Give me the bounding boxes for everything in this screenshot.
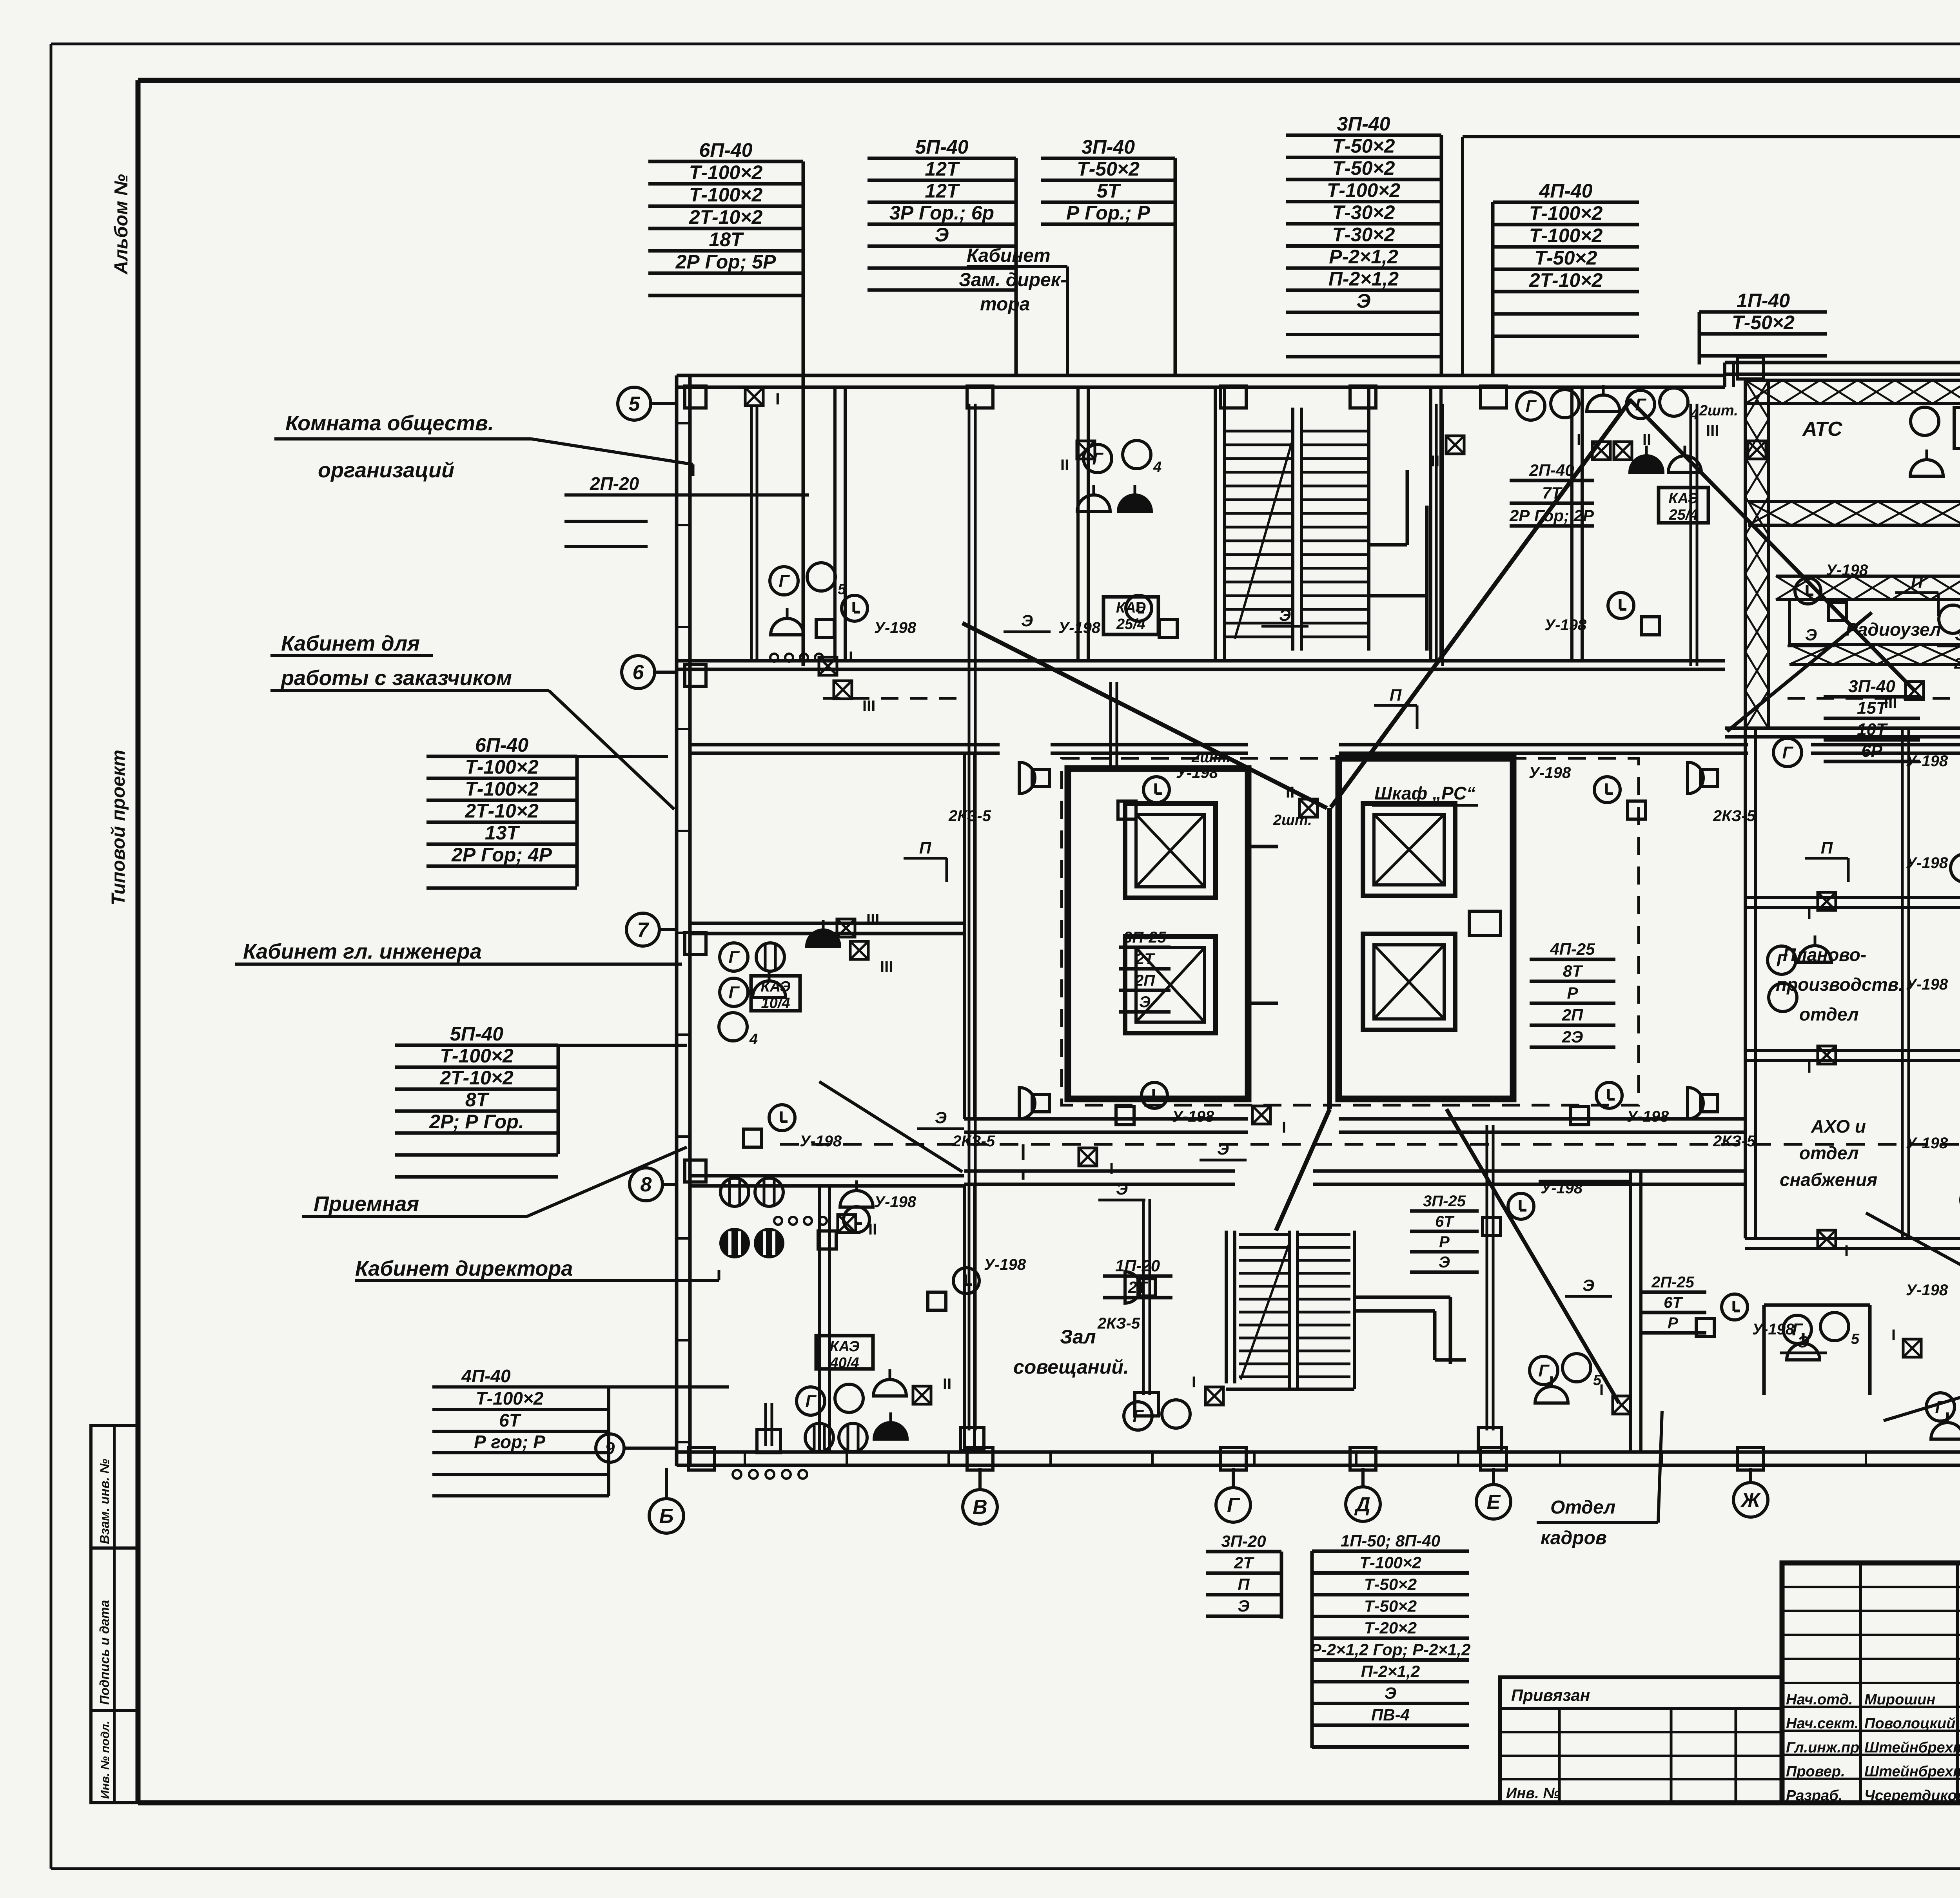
svg-text:Э: Э	[1955, 625, 1960, 644]
label Комната обществ. организаций	[274, 412, 693, 482]
svg-text:Т-30×2: Т-30×2	[1332, 201, 1395, 223]
cross-connect box КАЭ 40/4	[816, 1336, 873, 1371]
svg-text:У-198: У-198	[1176, 764, 1218, 781]
outlet cluster Отдел кадров	[1530, 1354, 1602, 1403]
label Э drop	[1098, 1180, 1145, 1200]
wall bottom main	[677, 1452, 1960, 1465]
svg-text:Т-100×2: Т-100×2	[689, 184, 763, 206]
svg-text:Ж: Ж	[1740, 1489, 1761, 1512]
junction box III	[1884, 682, 1924, 711]
wall partition x2130 upper	[835, 387, 845, 662]
svg-text:У-198: У-198	[1172, 1108, 1214, 1125]
outlet cluster гл. инженер	[719, 920, 840, 1048]
svg-text:13Т: 13Т	[485, 822, 521, 844]
duct band АТС top	[1745, 380, 1960, 404]
svg-text:II: II	[1060, 457, 1069, 474]
junction box I	[1599, 1381, 1631, 1414]
svg-text:9: 9	[605, 1439, 615, 1458]
wall axis-8 left rooms	[690, 1176, 964, 1186]
svg-text:Т-100×2: Т-100×2	[1359, 1554, 1421, 1572]
clock point У-198	[1906, 854, 1960, 911]
riser connector line to table 1П-50; 14П-40	[1463, 137, 1960, 375]
svg-text:Типовой проект: Типовой проект	[108, 750, 129, 905]
svg-text:1П-20: 1П-20	[1115, 1256, 1160, 1275]
junction box II	[1286, 784, 1318, 817]
svg-text:12Т: 12Т	[925, 158, 960, 180]
svg-text:7: 7	[637, 919, 650, 941]
svg-text:Р: Р	[1567, 984, 1578, 1002]
junction box III	[837, 911, 879, 937]
svg-text:КАЭ: КАЭ	[1116, 600, 1146, 616]
label Э drop	[1200, 1140, 1247, 1160]
svg-text:У-198: У-198	[1906, 1135, 1948, 1152]
riser table 4П-25 (8Т)	[1530, 940, 1615, 1047]
riser table 6П-40 top-left	[648, 139, 803, 666]
label Планово-производств. отдел	[1776, 944, 1904, 1024]
svg-text:Г: Г	[1525, 397, 1537, 416]
clock point У-198	[1906, 752, 1960, 809]
axis bubble 6	[622, 656, 677, 689]
svg-text:П: П	[1911, 573, 1923, 591]
svg-text:Шкаф „РС“: Шкаф „РС“	[1374, 783, 1475, 803]
svg-text:П: П	[1238, 1575, 1250, 1593]
svg-text:I: I	[1192, 1374, 1196, 1391]
svg-text:Привязан: Привязан	[1511, 1686, 1590, 1704]
svg-text:Э: Э	[1217, 1140, 1229, 1158]
svg-text:5: 5	[1593, 1372, 1602, 1389]
svg-text:Зам. дирек-: Зам. дирек-	[959, 270, 1067, 290]
svg-text:работы с заказчиком: работы с заказчиком	[280, 666, 512, 690]
dashed zone Шкаф РС	[1062, 758, 1639, 1105]
pilasters on bottom wall	[689, 1447, 1960, 1470]
svg-text:3П-20: 3П-20	[1221, 1532, 1266, 1550]
svg-text:Альбом №: Альбом №	[111, 174, 132, 275]
outlet cluster Бухгалтерия east	[1926, 1390, 1960, 1439]
svg-text:Р Гор.; Р: Р Гор.; Р	[1066, 202, 1151, 224]
clock point У-198	[1906, 1282, 1960, 1338]
svg-text:4: 4	[1690, 406, 1699, 423]
svg-text:Т-50×2: Т-50×2	[1077, 158, 1140, 180]
call point 2КЗ-5	[952, 1088, 1049, 1150]
svg-text:I: I	[1891, 1327, 1896, 1344]
svg-text:АХО и: АХО и	[1811, 1116, 1866, 1137]
svg-text:АТС: АТС	[1802, 418, 1843, 441]
stamp box Подпись и дата	[91, 1548, 138, 1711]
svg-text:Штейнбрехт: Штейнбрехт	[1864, 1764, 1960, 1780]
wall partition x3650 stair east	[1431, 387, 1441, 662]
wall divider right rooms y2680	[1745, 1050, 1960, 1060]
junction box III	[1706, 422, 1766, 459]
wall corridor-1 bottom east	[1339, 745, 1748, 753]
svg-text:Г: Г	[1227, 1494, 1240, 1517]
margin text Альбом	[111, 174, 132, 275]
riser table 1П-20	[1103, 1256, 1172, 1298]
svg-text:У-198: У-198	[1906, 976, 1948, 993]
wall corridor-1 top	[677, 661, 1725, 669]
svg-text:отдел: отдел	[1799, 1004, 1859, 1024]
junction box II	[913, 1376, 951, 1404]
svg-text:2Р; Р Гор.: 2Р; Р Гор.	[429, 1111, 524, 1133]
label 2шт centre	[1191, 749, 1230, 766]
junction box I	[1252, 1106, 1286, 1136]
axis bubble 8	[630, 1168, 677, 1201]
svg-text:У-198: У-198	[1752, 1321, 1795, 1338]
svg-text:Э: Э	[1439, 1254, 1450, 1271]
svg-text:Э: Э	[1238, 1597, 1249, 1615]
svg-text:У-198: У-198	[1541, 1180, 1583, 1197]
wall left main	[677, 375, 690, 1466]
wall partition x4010 upper	[1572, 387, 1582, 662]
svg-text:3П-40: 3П-40	[1848, 677, 1895, 696]
hatch circles junction axis8	[774, 1217, 827, 1225]
svg-text:Т-20×2: Т-20×2	[1364, 1619, 1417, 1637]
svg-text:Р гор; Р: Р гор; Р	[474, 1432, 545, 1452]
clock point У-198	[1118, 764, 1218, 819]
stairwell lower flights	[1226, 1231, 1466, 1389]
wall corridor-2 bottom west	[964, 1171, 1235, 1184]
svg-text:Т-100×2: Т-100×2	[689, 161, 763, 183]
label Кабинет директора	[355, 1257, 719, 1280]
svg-text:I: I	[1807, 905, 1811, 923]
wall step at Ж axis	[1725, 363, 1733, 387]
label Э drop	[1004, 611, 1051, 632]
axis bubble 7	[626, 913, 677, 946]
svg-text:Нач.сект.: Нач.сект.	[1786, 1715, 1858, 1732]
riser table 5П-40 top	[867, 136, 1016, 375]
label Бухгалтерия	[1866, 1213, 1960, 1421]
svg-text:2Р Гор; 4Р: 2Р Гор; 4Р	[451, 844, 552, 866]
svg-text:Т-30×2: Т-30×2	[1332, 224, 1395, 246]
svg-text:4П-40: 4П-40	[1539, 180, 1592, 202]
outlet cluster Зал совещаний	[1124, 1400, 1190, 1430]
svg-text:2шт.: 2шт.	[1191, 749, 1230, 766]
svg-text:Штейнбрехт: Штейнбрехт	[1864, 1739, 1960, 1756]
svg-text:У-198: У-198	[874, 619, 916, 636]
svg-text:Е: Е	[1487, 1491, 1501, 1514]
outlet cluster спецсвязь upper	[1773, 738, 1960, 889]
svg-text:III: III	[862, 698, 875, 715]
riser line x3800	[1478, 1125, 1502, 1451]
label П channel	[904, 839, 947, 882]
wall divider right rooms y3160	[1745, 1238, 1960, 1249]
wall corridor-1 bottom far east	[1811, 745, 1960, 753]
svg-text:I: I	[1109, 1160, 1114, 1177]
label Э drop	[1261, 606, 1308, 626]
svg-text:2Р Гор; 5Р: 2Р Гор; 5Р	[675, 251, 776, 273]
svg-text:Э: Э	[1797, 1332, 1809, 1351]
riser table 3П-40 top	[1041, 136, 1175, 374]
call point 2КЗ-5	[948, 762, 1049, 825]
call point 2КЗ-5	[1688, 762, 1756, 825]
svg-text:Г: Г	[728, 948, 740, 967]
svg-text:Р: Р	[1668, 1314, 1678, 1332]
clock point У-198	[1058, 595, 1177, 638]
cross-connect box КАЭ 25/4 west	[1103, 597, 1158, 634]
svg-text:2Т: 2Т	[1234, 1554, 1254, 1572]
svg-text:Т-50×2: Т-50×2	[1732, 312, 1795, 334]
svg-text:Мирошин: Мирошин	[1864, 1691, 1935, 1708]
riser stub Зал совещаний	[1135, 1199, 1158, 1416]
label Кабинет для работы с заказчиком	[270, 632, 674, 809]
junction box I	[1079, 1148, 1114, 1177]
wall partition x2460 lower	[964, 1184, 975, 1452]
title block frame	[1782, 1563, 1960, 1803]
cable diagonal Приемная	[819, 1082, 962, 1172]
cable diagonal top to centre	[1331, 400, 1631, 807]
svg-text:6Т: 6Т	[499, 1410, 522, 1430]
duct band radio bottom	[1789, 645, 1960, 664]
svg-text:2Т-10×2: 2Т-10×2	[689, 206, 763, 228]
svg-text:2Т-10×2: 2Т-10×2	[1529, 269, 1603, 291]
label П channel	[1895, 573, 1938, 616]
riser line x3671 lower	[1436, 404, 1443, 666]
svg-text:5: 5	[1851, 1331, 1860, 1347]
riser table 3П-25 (2Т 2П Э)	[1119, 929, 1171, 1012]
axis bubble Е	[1476, 1468, 1511, 1519]
wall partition x4160 lower	[1631, 1171, 1641, 1452]
svg-text:производств.: производств.	[1776, 974, 1904, 995]
svg-text:Т-50×2: Т-50×2	[1535, 247, 1597, 269]
pilasters on left wall	[685, 386, 706, 1182]
svg-text:2шт.: 2шт.	[1273, 812, 1312, 828]
svg-text:Нач.отд.: Нач.отд.	[1786, 1691, 1853, 1708]
svg-text:Т-50×2: Т-50×2	[1364, 1575, 1417, 1593]
clock point У-198	[928, 1256, 1026, 1310]
left wall panel ticks	[677, 423, 1960, 1466]
cable diagonal corridor to centre	[962, 623, 1327, 808]
wall top right block	[1725, 363, 1960, 374]
svg-text:Взам. инв. №: Взам. инв. №	[97, 1459, 112, 1544]
svg-text:У-198: У-198	[984, 1256, 1026, 1273]
svg-text:4П-40: 4П-40	[461, 1366, 511, 1386]
svg-text:Р: Р	[1439, 1233, 1450, 1251]
junction box I	[1577, 431, 1610, 460]
svg-text:Г: Г	[1935, 1398, 1946, 1417]
riser table 3П-40 top-centre	[1286, 113, 1441, 375]
stairwell upper flights	[1215, 387, 1427, 662]
wall fragment lower corridor	[1539, 1171, 1631, 1181]
svg-text:3Р Гор.; 6р: 3Р Гор.; 6р	[889, 202, 994, 224]
svg-text:5П-40: 5П-40	[450, 1023, 503, 1045]
wall axis-7 left rooms	[690, 923, 964, 934]
АТС room walls	[1769, 404, 1960, 502]
riser table 5П-40 left	[395, 1023, 558, 1177]
svg-text:У-198: У-198	[800, 1133, 842, 1150]
junction box II	[1614, 431, 1651, 460]
svg-text:6Т: 6Т	[1664, 1294, 1683, 1311]
svg-text:3П-25: 3П-25	[1423, 1193, 1466, 1210]
clock point У-198	[1906, 976, 1960, 1033]
svg-text:Инв. № подл.: Инв. № подл.	[99, 1721, 112, 1799]
svg-text:2КЗ-5: 2КЗ-5	[952, 1133, 995, 1150]
duct band vertical west	[1745, 380, 1769, 729]
label Э drop	[1788, 625, 1835, 646]
label 2шт east	[1954, 656, 1960, 672]
duct band below АТС	[1748, 502, 1960, 525]
axis bubble Д	[1346, 1468, 1380, 1521]
svg-text:Д: Д	[1354, 1493, 1370, 1516]
svg-text:8: 8	[641, 1173, 652, 1196]
label Кабинет гл. инженера	[235, 940, 682, 964]
riser line x4320	[1691, 404, 1697, 666]
label 2шт top	[1273, 812, 1312, 828]
svg-text:П: П	[1821, 839, 1833, 857]
svg-text:2Т-10×2: 2Т-10×2	[439, 1067, 514, 1089]
svg-text:Э: Э	[1805, 625, 1817, 644]
svg-text:Э: Э	[935, 224, 949, 246]
svg-text:I: I	[1807, 1059, 1811, 1076]
svg-text:Чсеретдикова: Чсеретдикова	[1864, 1787, 1960, 1804]
junction box I	[1807, 892, 1836, 923]
svg-text:2шт.: 2шт.	[1954, 656, 1960, 672]
clock point У-198	[1795, 562, 1868, 620]
svg-text:КАЭ: КАЭ	[760, 979, 790, 995]
svg-text:2П-20: 2П-20	[590, 473, 639, 494]
svg-text:III: III	[880, 958, 893, 975]
axis bubble В	[963, 1468, 997, 1524]
svg-text:Отдел: Отдел	[1550, 1497, 1615, 1518]
label Приемная	[302, 1147, 687, 1216]
svg-text:У-198: У-198	[1906, 854, 1948, 872]
wall corridor-2 top east	[1339, 1119, 1745, 1132]
label П channel	[1374, 686, 1417, 729]
attachment block Привязан	[1500, 1677, 1782, 1803]
clock point У-198	[1544, 593, 1659, 635]
svg-text:Г: Г	[1132, 1407, 1144, 1426]
svg-text:I: I	[1577, 431, 1581, 448]
label Кабинет Зам. директора	[959, 245, 1067, 374]
svg-text:кадров: кадров	[1541, 1528, 1607, 1548]
junction box I	[819, 649, 853, 675]
svg-text:5: 5	[838, 581, 846, 598]
svg-text:Г: Г	[1092, 449, 1103, 468]
cross-connect box КАЭ 10/4	[751, 976, 800, 1012]
cable diagonal centre to I-box bottom	[1446, 1109, 1619, 1403]
svg-text:6: 6	[633, 661, 644, 684]
clock point У-198	[744, 1105, 842, 1150]
outlet cluster room 5-6	[770, 563, 846, 635]
riser line x2840	[1111, 682, 1117, 768]
svg-text:4: 4	[1153, 459, 1161, 475]
svg-text:I: I	[1844, 1242, 1849, 1260]
junction box I	[1891, 1327, 1921, 1357]
svg-text:В: В	[973, 1496, 987, 1519]
clock point У-198	[1116, 1082, 1214, 1125]
outlet cluster спецсвязь lower	[1768, 935, 1831, 1012]
label Шкаф РС	[1372, 783, 1478, 805]
clock point У-198	[1696, 1294, 1795, 1338]
svg-text:Г: Г	[1782, 743, 1793, 762]
svg-text:2П-25: 2П-25	[1651, 1274, 1695, 1291]
svg-text:2П-40: 2П-40	[1529, 461, 1574, 479]
stamp box Инв. № подл.	[91, 1711, 138, 1803]
svg-text:Провер.: Провер.	[1786, 1764, 1845, 1780]
clock point У-198	[1906, 1112, 1960, 1154]
svg-text:П-2×1,2: П-2×1,2	[1328, 268, 1399, 290]
svg-text:I: I	[849, 649, 853, 666]
svg-text:3П-40: 3П-40	[1337, 113, 1390, 135]
axis bubble Ж	[1733, 1468, 1768, 1517]
svg-text:У-198: У-198	[1906, 752, 1948, 770]
svg-text:8Т: 8Т	[1563, 962, 1583, 980]
svg-text:2П: 2П	[1562, 1006, 1583, 1024]
riser table 1П-50; 8П-40	[1310, 1532, 1471, 1748]
title block left grid	[1782, 1563, 1960, 1803]
svg-text:У-198: У-198	[1826, 562, 1868, 579]
label Э drop	[1780, 1332, 1827, 1353]
dashed line corridor-1 segment west	[823, 697, 960, 700]
svg-text:III: III	[1706, 422, 1719, 439]
axis bubble 9	[596, 1434, 677, 1462]
svg-text:Т-100×2: Т-100×2	[1529, 225, 1603, 247]
outlet cluster Бухгалтерия west	[1783, 1312, 1860, 1360]
svg-text:совещаний.: совещаний.	[1013, 1356, 1129, 1378]
room partition in Бухгалтерия	[1764, 1305, 1870, 1395]
svg-text:У-198: У-198	[1906, 1282, 1948, 1299]
label Э drop	[1937, 625, 1960, 646]
svg-text:2КЗ-5: 2КЗ-5	[1097, 1315, 1140, 1332]
wall partition x2750 stair west	[1078, 387, 1088, 662]
svg-text:25/4: 25/4	[1669, 507, 1698, 523]
svg-text:КАЭ: КАЭ	[829, 1338, 859, 1355]
label Отдел кадров	[1537, 1411, 1662, 1548]
svg-text:П-2×1,2: П-2×1,2	[1361, 1662, 1420, 1680]
svg-text:5: 5	[629, 393, 641, 415]
wall top main	[677, 375, 1725, 387]
svg-text:6П-40: 6П-40	[475, 734, 528, 756]
svg-text:тора: тора	[980, 294, 1030, 315]
label П channel	[1805, 839, 1848, 882]
clock point У-198	[1571, 1082, 1669, 1125]
cable diagonal east junction	[1630, 399, 1915, 691]
wall corridor-1 top east	[1725, 728, 1960, 737]
call point 2КЗ-5	[1097, 1272, 1155, 1332]
svg-text:5П-40: 5П-40	[915, 136, 968, 158]
svg-text:Подпись и дата: Подпись и дата	[97, 1600, 112, 1705]
svg-text:Т-100×2: Т-100×2	[465, 778, 539, 800]
svg-text:6Т: 6Т	[1435, 1213, 1455, 1230]
svg-text:Т-50×2: Т-50×2	[1332, 135, 1395, 157]
svg-text:Приемная: Приемная	[314, 1192, 419, 1216]
svg-text:отдел: отдел	[1799, 1143, 1859, 1163]
riser table 2П-40	[1509, 461, 1594, 526]
junction box I	[1807, 1046, 1836, 1076]
svg-text:П: П	[1390, 686, 1402, 704]
wall divider right rooms y2290	[1745, 897, 1960, 908]
riser table 2П-25	[1639, 1274, 1706, 1333]
wall corridor-1 bottom centre	[1051, 745, 1248, 753]
svg-text:Зал: Зал	[1060, 1326, 1096, 1348]
svg-text:ПВ-4: ПВ-4	[1371, 1706, 1410, 1724]
svg-text:1П-50; 8П-40: 1П-50; 8П-40	[1341, 1532, 1440, 1550]
axis bubble Б	[649, 1468, 684, 1533]
margin text Типовой проект	[108, 750, 129, 905]
svg-text:Т-100×2: Т-100×2	[465, 756, 539, 778]
clock point У-198	[816, 595, 916, 638]
junction box III	[834, 681, 875, 715]
riser line x2480 long	[960, 404, 984, 1451]
call point 2КЗ-5	[1688, 1088, 1756, 1150]
svg-text:2КЗ-5: 2КЗ-5	[1713, 1133, 1756, 1150]
Радиоузел room box	[1789, 600, 1960, 645]
riser table 3П-25 (6Т Р Э)	[1410, 1193, 1479, 1272]
outlet in Радиоузел	[1939, 593, 1960, 633]
svg-text:III: III	[1884, 694, 1897, 711]
svg-text:I: I	[1282, 1119, 1286, 1136]
riser table 6П-40 left	[426, 734, 577, 888]
svg-text:Г: Г	[1538, 1361, 1550, 1380]
svg-text:II: II	[943, 1376, 951, 1393]
